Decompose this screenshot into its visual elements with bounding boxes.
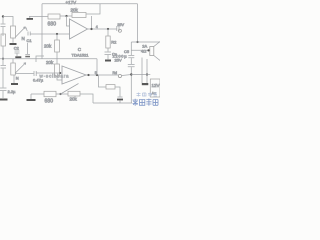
node on +in ch2 <box>59 72 61 74</box>
ground (pot2) <box>13 75 15 83</box>
resistor R2 (boucherot ch1) <box>107 29 109 52</box>
node +in / 20k junction <box>56 33 58 35</box>
wire rail branch to feedback <box>86 4 100 14</box>
svg-text:25V: 25V <box>117 23 124 27</box>
wire to cap <box>115 87 120 97</box>
node right drop <box>136 41 138 43</box>
wire y50 to speaker <box>131 49 148 51</box>
wire 680 left to ground <box>31 93 44 95</box>
svg-text:20k: 20k <box>70 97 78 102</box>
bottom rail <box>93 102 132 104</box>
potentiometer RP1 body <box>11 26 16 38</box>
svg-text:C: C <box>78 47 82 52</box>
svg-text:C2: C2 <box>14 46 20 51</box>
wire rail left drop <box>41 4 43 59</box>
svg-text:+17V: +17V <box>66 0 77 5</box>
node output/R2 <box>107 28 109 30</box>
resistor 20k (ch2 bottom) <box>68 91 80 96</box>
node feedback bottom ch2 <box>59 93 61 95</box>
capacitor C3 (series, ch1) <box>26 28 30 36</box>
node out2 a <box>87 74 89 76</box>
svg-text:N: N <box>16 76 19 81</box>
ground tap (680 left) <box>29 17 31 19</box>
wire -in drop <box>67 16 70 26</box>
wire feedback vertical ch1 <box>91 16 93 29</box>
wire speaker lower drop b <box>146 59 148 83</box>
svg-text:20k: 20k <box>71 8 79 13</box>
svg-text:Rd: Rd <box>113 71 118 75</box>
node column/out2 <box>130 73 132 75</box>
svg-text:N: N <box>22 36 25 41</box>
wire out2 to column <box>122 75 132 76</box>
resistor 20k (ch2 feedback upper) <box>57 59 62 80</box>
svg-text:2.2µ: 2.2µ <box>8 89 17 94</box>
potentiometer RP2 wiper arrow <box>15 63 25 73</box>
resistor 680 (ch1) <box>48 14 60 19</box>
battery box 12V <box>150 79 160 97</box>
power rail +17V <box>42 3 138 5</box>
op-amp A2 (ch2) <box>62 66 86 84</box>
node -in ch1 <box>65 15 67 17</box>
svg-text:20k: 20k <box>44 44 52 49</box>
capacitor C6 25V output ch1 <box>117 26 119 31</box>
capacitor C5 (upper in column) <box>128 42 134 64</box>
node output terminal ch1 <box>118 29 121 32</box>
wire corner (36,56) <box>36 56 44 62</box>
node speaker terminal <box>147 49 149 51</box>
node output terminal ch2 <box>118 74 121 77</box>
resistor 20k feedback ch1 <box>72 13 86 18</box>
ground (pot1) <box>12 38 14 43</box>
resistor R (left chain) <box>1 34 6 46</box>
watermark chinese row1 <box>137 93 158 97</box>
wire to 680 <box>29 16 48 18</box>
wire +in ch2 <box>36 72 62 74</box>
wire input to pot <box>3 17 13 27</box>
mid rail / feedback line ch2 <box>0 58 97 60</box>
potentiometer RP2 body <box>12 59 14 63</box>
svg-text:12V: 12V <box>152 83 160 88</box>
capacitor C (bottom left electrolytic) <box>0 88 7 98</box>
capacitor 2200u (lower in column) <box>128 65 135 103</box>
node output ch1 <box>90 28 92 30</box>
wire 680 to 20k <box>56 93 68 95</box>
node out2 b <box>96 74 98 76</box>
wire out2 to supply box <box>131 74 150 76</box>
capacitor C1 (left chain upper) <box>1 17 6 36</box>
wire diagonal feedback ch2 <box>61 84 79 95</box>
ground (680 ch2) <box>27 99 36 101</box>
svg-text:25V: 25V <box>115 58 122 63</box>
wire 680 to -in node <box>60 15 72 17</box>
watermark chinese row2 <box>133 99 159 106</box>
svg-text:4: 4 <box>96 25 98 29</box>
svg-text:C1: C1 <box>27 38 33 43</box>
capacitor (boucherot ch2) <box>118 96 123 98</box>
wire +in ch1 <box>31 33 70 35</box>
wire left chain to mid rail <box>2 46 4 59</box>
wire output ch1 <box>88 28 117 30</box>
ground (boucherot ch1) <box>105 60 111 62</box>
capacitor (x31 column) <box>25 43 30 55</box>
capacitor C8 (boucherot ch1) <box>105 52 112 59</box>
wire pot2 wiper to cap <box>15 73 34 75</box>
node input terminal dot <box>2 15 4 17</box>
ground (right) <box>142 83 149 85</box>
wire speaker lower drop a <box>141 58 143 84</box>
node on out2 wire <box>146 73 148 75</box>
capacitor C (series ch2) <box>34 71 36 76</box>
resistor (boucherot ch2) <box>106 85 115 89</box>
resistor 680 (ch2) <box>44 91 56 96</box>
potentiometer RP1 wiper arrow <box>16 27 26 37</box>
node left chain / mid-rail junction <box>2 58 4 60</box>
wire y42 to speaker <box>131 41 160 43</box>
wire right drop from rail <box>137 4 139 42</box>
loudspeaker BL <box>150 47 154 56</box>
svg-text:TDA1521: TDA1521 <box>72 53 90 58</box>
ground (bottom left) <box>0 99 8 101</box>
svg-text:20k: 20k <box>46 60 54 65</box>
resistor 20k (+in ch1 to rail) <box>56 34 58 59</box>
capacitor (left chain lower) <box>1 59 7 88</box>
svg-text:680: 680 <box>45 99 54 105</box>
wire feedback vertical ch2 <box>96 59 98 75</box>
op-amp A1 (ch1) <box>70 19 88 39</box>
svg-text:R2: R2 <box>111 40 117 45</box>
svg-text:4Ω: 4Ω <box>141 49 146 54</box>
wire boucherot ch2 drop <box>99 75 107 87</box>
svg-text:680: 680 <box>48 21 57 27</box>
wire 20k to rail <box>80 94 93 103</box>
wire output ch2 <box>86 74 118 76</box>
svg-text:5: 5 <box>95 71 97 75</box>
